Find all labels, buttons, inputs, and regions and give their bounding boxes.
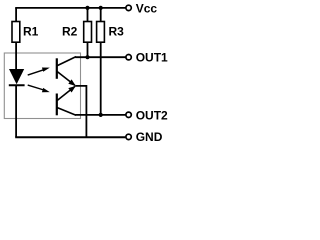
svg-text:R1: R1 [23,24,39,38]
svg-text:R2: R2 [62,24,78,38]
svg-text:Vcc: Vcc [136,1,158,15]
svg-text:GND: GND [136,130,163,144]
svg-text:OUT1: OUT1 [136,51,168,65]
svg-text:R3: R3 [109,24,125,38]
svg-text:OUT2: OUT2 [136,108,168,122]
